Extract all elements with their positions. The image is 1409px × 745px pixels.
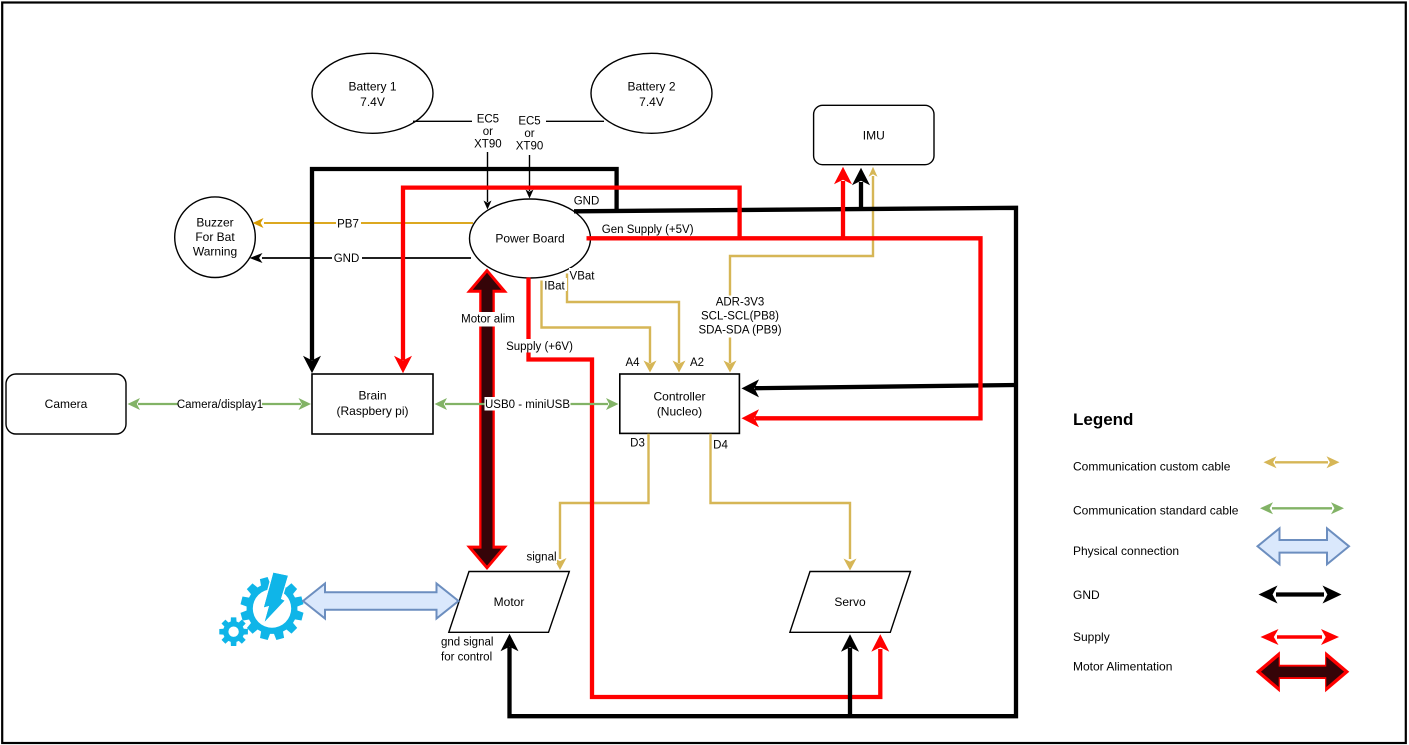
svg-text:GND: GND — [574, 196, 600, 208]
svg-text:For Bat: For Bat — [195, 230, 235, 244]
wire supply +6V power board to servo — [529, 278, 881, 698]
svg-text:Brain: Brain — [358, 389, 386, 403]
wire gen supply +5V power board to controller — [587, 238, 981, 418]
svg-text:GND: GND — [1073, 588, 1100, 602]
svg-text:7.4V: 7.4V — [360, 95, 385, 109]
svg-text:Buzzer: Buzzer — [196, 216, 233, 230]
svg-text:ADR-3V3: ADR-3V3 — [716, 297, 765, 309]
svg-text:Motor alim: Motor alim — [461, 314, 515, 326]
power board U1 — [470, 199, 591, 278]
svg-text:XT90: XT90 — [516, 141, 544, 153]
svg-text:Camera: Camera — [45, 397, 88, 411]
svg-text:EC5: EC5 — [518, 116, 540, 128]
svg-text:IMU: IMU — [863, 129, 885, 143]
svg-text:(Nucleo): (Nucleo) — [657, 405, 702, 419]
svg-text:XT90: XT90 — [474, 139, 502, 151]
svg-text:EC5: EC5 — [477, 114, 499, 126]
wire battery2 EC5 to power board — [530, 121, 605, 191]
wire GND branch to brain — [312, 169, 617, 360]
svg-text:Controller: Controller — [653, 389, 705, 403]
svg-text:Camera/display1: Camera/display1 — [177, 399, 263, 411]
svg-text:Supply: Supply — [1073, 630, 1110, 644]
buzzer — [175, 197, 256, 278]
svg-text:(Raspbery pi): (Raspbery pi) — [336, 404, 408, 418]
svg-text:Battery 1: Battery 1 — [348, 79, 396, 93]
wire battery1 EC5 to power board — [413, 121, 488, 202]
label Supply (+6V) — [506, 339, 573, 353]
motor — [449, 572, 570, 633]
label Camera/display1 — [178, 397, 262, 411]
camera — [6, 374, 126, 434]
svg-text:Communication standard cable: Communication standard cable — [1073, 504, 1239, 518]
wire D4 controller to servo — [711, 434, 851, 559]
label EC5 or XT90 (battery2) — [514, 114, 546, 155]
wire USB brain to controller — [445, 403, 608, 405]
wire GND main power board to right side and bottom — [510, 208, 1017, 716]
label EC5 or XT90 (battery1) — [472, 111, 504, 152]
gear icon with lightning (mechanical power) — [241, 577, 304, 640]
svg-text:A4: A4 — [625, 357, 640, 369]
label ADR-3V3 SCL SDA — [699, 296, 782, 338]
svg-text:for control: for control — [441, 652, 492, 664]
svg-text:USB0 - miniUSB: USB0 - miniUSB — [485, 399, 570, 411]
svg-text:SCL-SCL(PB8): SCL-SCL(PB8) — [701, 311, 779, 323]
svg-text:SDA-SDA (PB9): SDA-SDA (PB9) — [698, 325, 781, 337]
battery B1 — [312, 53, 433, 133]
wire GND branch to IMU — [859, 182, 863, 209]
servo — [790, 572, 911, 633]
controller (nucleo) — [620, 374, 740, 433]
svg-text:D4: D4 — [713, 440, 728, 452]
wire supply branch to brain — [403, 188, 740, 360]
svg-text:Legend: Legend — [1073, 410, 1133, 429]
wire D3 controller to motor signal — [560, 434, 649, 559]
svg-text:Warning: Warning — [193, 245, 237, 259]
svg-text:Power Board: Power Board — [495, 232, 564, 246]
wire VBat power board to controller A2 — [567, 274, 679, 364]
label GND (buzzer) — [332, 251, 362, 264]
svg-text:Communication custom cable: Communication custom cable — [1073, 460, 1231, 474]
wire camera to brain — [138, 403, 301, 405]
svg-text:signal: signal — [526, 552, 556, 564]
svg-text:Motor Alimentation: Motor Alimentation — [1073, 660, 1172, 674]
svg-text:VBat: VBat — [570, 271, 596, 283]
svg-text:Motor: Motor — [494, 595, 525, 609]
wire I2C IMU to controller — [730, 176, 873, 363]
label USB0 - miniUSB — [485, 397, 571, 411]
wire GND branch to servo — [848, 648, 852, 716]
svg-text:GND: GND — [334, 253, 360, 265]
svg-text:Battery 2: Battery 2 — [627, 79, 675, 93]
svg-text:gnd signal: gnd signal — [441, 637, 493, 649]
svg-text:or: or — [483, 126, 493, 138]
svg-text:PB7: PB7 — [337, 219, 359, 231]
label signal — [526, 550, 557, 563]
label VBat — [569, 268, 597, 281]
svg-text:IBat: IBat — [544, 281, 565, 293]
wire supply branch to IMU — [841, 181, 845, 238]
label PB7 — [336, 216, 361, 229]
svg-text:Supply (+6V): Supply (+6V) — [506, 341, 573, 353]
physical connection arrow gear to motor — [303, 584, 459, 619]
wire GND power board to buzzer — [262, 257, 471, 259]
wire PB7 power board to buzzer — [264, 222, 473, 224]
svg-text:or: or — [524, 128, 534, 140]
label IBat — [543, 278, 567, 291]
IMU module — [814, 105, 934, 164]
label GND (top) — [572, 193, 601, 206]
svg-text:7.4V: 7.4V — [639, 95, 664, 109]
svg-text:Servo: Servo — [834, 595, 866, 609]
svg-text:A2: A2 — [690, 357, 704, 369]
wire motor alimentation power board to motor — [466, 268, 507, 570]
svg-text:Physical connection: Physical connection — [1073, 544, 1179, 558]
wire GND branch to controller — [755, 385, 1016, 388]
brain (raspberry pi) — [312, 374, 433, 434]
svg-text:D3: D3 — [630, 438, 645, 450]
battery B2 — [591, 53, 712, 133]
wire IBat power board to controller A4 — [542, 281, 651, 364]
svg-text:Gen Supply (+5V): Gen Supply (+5V) — [602, 224, 694, 236]
label Motor alim — [461, 312, 515, 327]
